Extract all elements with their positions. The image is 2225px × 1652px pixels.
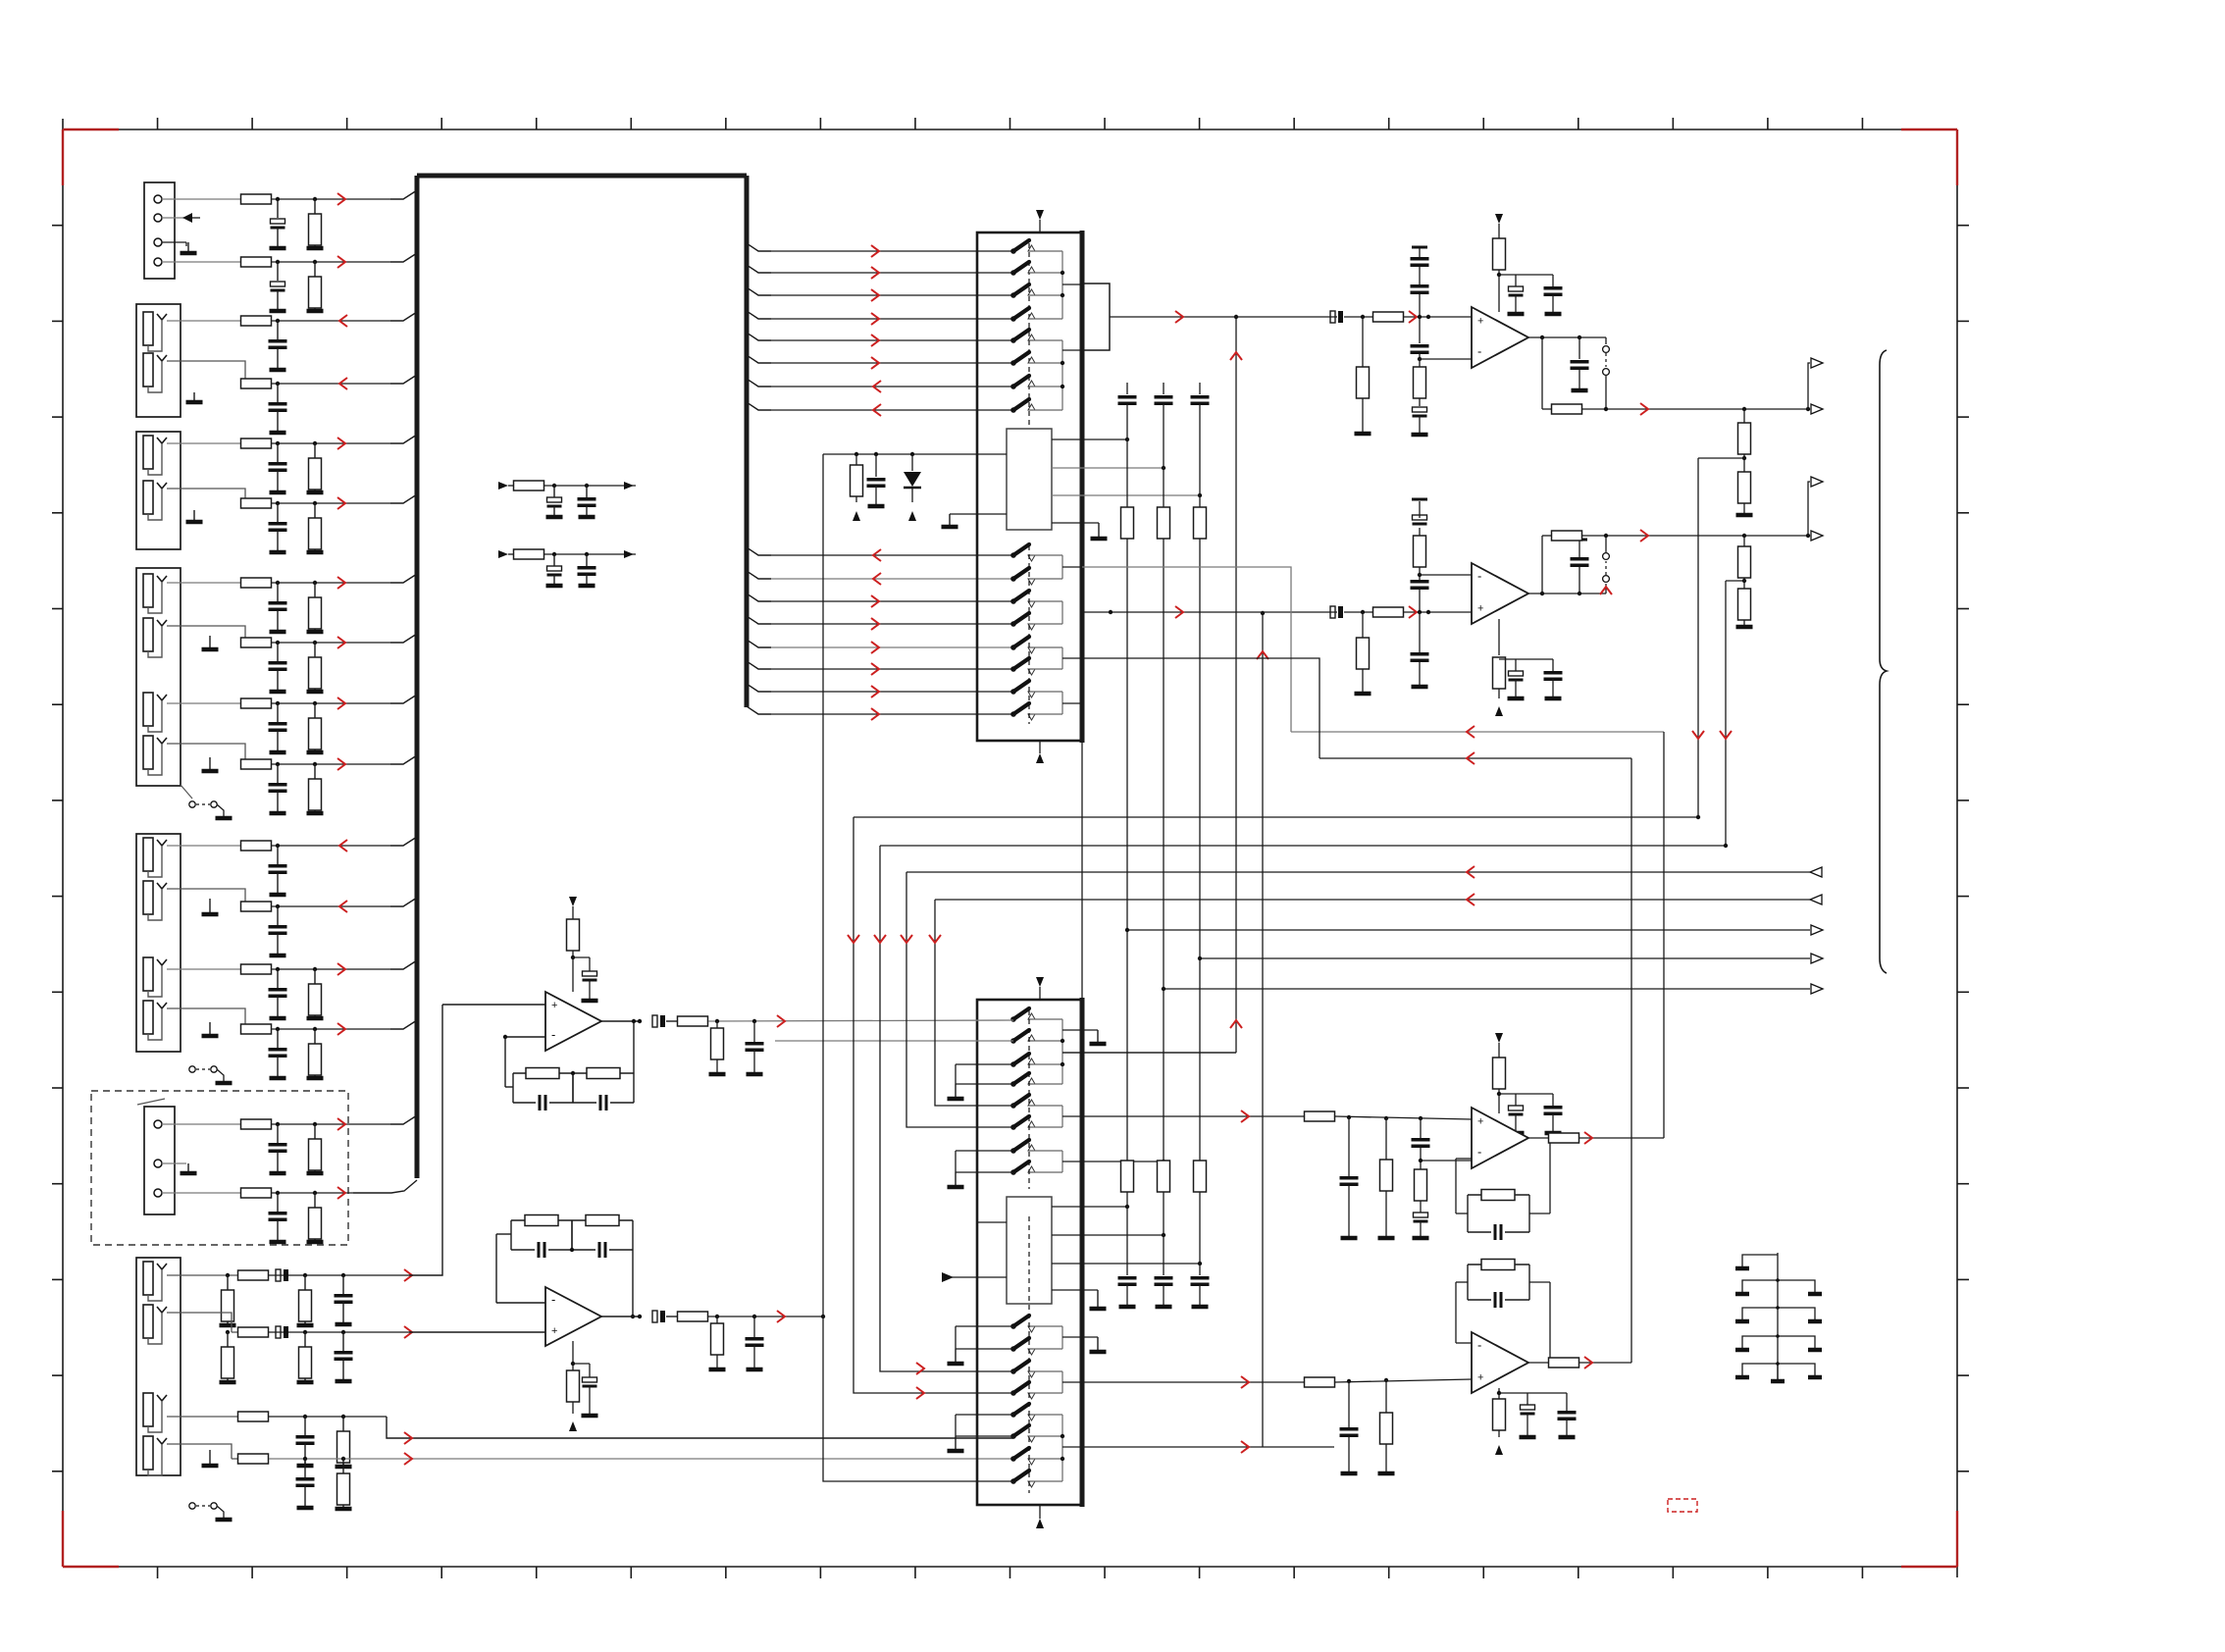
channel A output divider (1736, 409, 1753, 515)
reference network row 2 (498, 549, 636, 586)
input channel row 2A (167, 312, 417, 370)
U2 switches bank B (1010, 544, 1035, 724)
switch matrix U2 outline (977, 231, 1082, 743)
jack group J5 box (136, 834, 181, 1052)
channel B input caps (1411, 573, 1429, 687)
U2 bank B merge pair 4 (1033, 692, 1082, 714)
op-amp U6B decoupling caps (1499, 1393, 1577, 1437)
channel B inverting shunt (1412, 499, 1427, 575)
wire column x1287 (1257, 611, 1268, 1447)
op-amp U6B output (1528, 1357, 1631, 1368)
op-amp U5A (1472, 307, 1528, 368)
bus drop x924 (901, 872, 1013, 1127)
op-amp U6A decoupling caps (1499, 1094, 1563, 1133)
svg-text:-: - (1477, 344, 1481, 359)
jack J5b step wire (167, 889, 245, 906)
channel B output row (1542, 530, 1810, 594)
U2 supply arrow bottom (1036, 741, 1044, 763)
input channel row 7B (220, 1326, 413, 1382)
J4ab ground (202, 636, 219, 649)
svg-text:+: + (1477, 1116, 1483, 1128)
U3 merge output gnd stub (1062, 1030, 1107, 1044)
U3 bank A merge group 1 (1033, 1019, 1236, 1084)
bus row y889 return (906, 866, 1822, 878)
jack J4d (143, 736, 167, 775)
input channel row 5C (167, 960, 417, 1018)
jack J2b step wire (167, 361, 245, 384)
bias net wire (823, 453, 1007, 455)
red corner bottom-right (1901, 1511, 1957, 1567)
channel A output node (1528, 336, 1606, 390)
input channel row 6B (162, 1187, 353, 1242)
channel B inverting input (1420, 574, 1472, 576)
op-amp U4A decoupling cap (573, 957, 598, 1001)
J4cd ground (202, 757, 219, 771)
IC U1 input selector outline (417, 176, 747, 1178)
op-amp U6A input network (1305, 1111, 1473, 1238)
bus row y977 send (1198, 954, 1823, 963)
J5cd ground (202, 1022, 219, 1036)
jack group J3 box (136, 432, 181, 549)
U2 control block (1007, 429, 1052, 530)
bus drop x870 (848, 817, 1013, 1399)
bus row y1008 send (1162, 984, 1823, 994)
U2 input switches bank A (1010, 240, 1035, 413)
U3 bank B merge pair 2 (1033, 1371, 1305, 1393)
U3 bank A merge pair 4 (1033, 1151, 1165, 1172)
op-amp U6B feedback (1456, 1260, 1552, 1366)
op-amp U6B input network (1305, 1377, 1473, 1473)
op-amp U5A decoupling caps (1499, 275, 1563, 314)
input channel row 7D (232, 1453, 1013, 1509)
U2 supply arrow top (1036, 210, 1044, 232)
op-amp U4B feedback network (496, 1215, 635, 1319)
svg-text:-: - (551, 1292, 555, 1307)
jack J5b (143, 881, 167, 920)
input channel row 4A (167, 574, 417, 632)
U2 switch dashed common (1028, 243, 1030, 426)
svg-text:+: + (1477, 603, 1483, 615)
jack J7c (143, 1393, 167, 1432)
channel A inverting shunt (1412, 359, 1428, 435)
wire U3-to-opamp3 column (1062, 315, 1242, 1053)
U3 bank B merge group 3 (1033, 1415, 1334, 1481)
jack J7a (143, 1262, 167, 1301)
input channel row 3B (241, 494, 418, 552)
svg-text:-: - (1477, 569, 1481, 584)
op-amp U4A output network (601, 1015, 1013, 1074)
input channel R/C row 1B (162, 253, 417, 311)
op-amp U4A input wires (442, 1005, 545, 1039)
input channel row 4D (241, 755, 418, 813)
return bus row y773 (1082, 658, 1631, 764)
bus row y862 (880, 844, 1728, 848)
jack J2a (143, 312, 167, 351)
IC U1 lower fan-out bus (747, 547, 1013, 720)
U3 switches bank B (1010, 1216, 1035, 1493)
channel A output jumper (1603, 337, 1610, 409)
return drop x1663 (1630, 758, 1632, 1363)
bias cap C30 (867, 452, 886, 506)
bus drop x897 (874, 846, 1013, 1374)
U2 bank B merge pair 2 (1033, 601, 1062, 624)
jack J5d (143, 1001, 167, 1040)
input channel row 5A (167, 837, 417, 895)
channel B divider tap wire (1720, 581, 1744, 846)
op-amp U4A power resistor (567, 897, 580, 992)
J7cd ground (202, 1450, 219, 1466)
op-amp U5A power resistor (1493, 214, 1506, 312)
channel B output divider (1736, 536, 1753, 627)
J6 pin2 ground (162, 1163, 197, 1173)
jack J4b step wire (167, 626, 245, 643)
svg-text:+: + (1477, 1372, 1483, 1384)
U3 supply arrow bottom (1036, 1505, 1044, 1528)
svg-text:-: - (1477, 1145, 1481, 1160)
reference network row 1 (498, 481, 636, 517)
U3 merge wire to opamp U6B (1241, 1376, 1249, 1388)
input channel row 2B (241, 375, 418, 433)
jack J7b (143, 1305, 167, 1344)
return drop x1696 (1663, 732, 1665, 1138)
U2 control bus pins (1052, 438, 1202, 539)
svg-text:+: + (551, 1325, 557, 1337)
svg-text:+: + (1477, 316, 1483, 328)
U3 supply arrow top (1036, 977, 1044, 1000)
U2/U3 interconnect columns (1118, 383, 1210, 1161)
sheet border frame (63, 119, 1957, 1577)
jack J7d (143, 1436, 167, 1475)
IC U1 fan-out bus to switch matrix U2 (747, 243, 1013, 416)
op-amp U6A output (1528, 1132, 1664, 1144)
U3 bank B merge pair 1 (1033, 1326, 1062, 1349)
jack group J4 box (136, 568, 181, 786)
svg-text:+: + (551, 1000, 557, 1011)
jack J7b step wire (167, 1313, 232, 1332)
jack J4b (143, 618, 167, 657)
input channel row 3A (167, 435, 417, 492)
jack J3b (143, 481, 167, 520)
jack J3b step wire (167, 489, 245, 503)
connector J6 pins (154, 1120, 162, 1197)
op-amp U4B output network (601, 1311, 825, 1369)
jack J2b (143, 353, 167, 392)
channel B output node (1528, 540, 1606, 595)
op-amp U6A (1472, 1108, 1528, 1168)
jack J5a (143, 838, 167, 877)
channel A inverting input (1420, 358, 1472, 360)
channel B output arrows (1808, 477, 1823, 541)
J1 pin2 wire with arrow (162, 213, 200, 223)
input channel row 7A (167, 1005, 442, 1325)
U2 bank A merge group 2 (1033, 340, 1082, 410)
bus row y948 send (1125, 925, 1823, 935)
op-amp U4B input wires (409, 1303, 545, 1332)
op-amp U4A feedback network (505, 1019, 636, 1110)
J2 sleeve ground (186, 392, 203, 402)
U2 control block left pin (942, 514, 1008, 527)
J7 insert-detect switch (189, 1503, 233, 1520)
jack J3a (143, 436, 167, 475)
U3 grounded input pair 1 (948, 1064, 1014, 1099)
connector J6 box (137, 1099, 175, 1214)
op-amp U5B decoupling caps (1499, 659, 1563, 698)
U3 control input arrow (942, 1272, 1007, 1282)
jack J5c (143, 957, 167, 997)
J1 pin3 ground (162, 242, 197, 253)
channel A output row (1542, 337, 1810, 415)
wire bias column (822, 454, 824, 1316)
signal group bracket (1880, 350, 1887, 973)
op-amp U5B (1472, 563, 1528, 624)
bus row y833 (854, 815, 1700, 819)
jack J4a (143, 574, 167, 613)
channel A output arrows (1808, 358, 1823, 414)
U3 merge wire to opamp U6A (1241, 1110, 1249, 1122)
jack group J2 box (136, 304, 181, 417)
J3 sleeve ground (186, 510, 203, 522)
svg-text:-: - (1477, 1338, 1481, 1353)
bus row y917 return (935, 894, 1822, 905)
U3 switches bank A (1010, 1008, 1035, 1189)
op-amp U4B power resistor (567, 1341, 598, 1431)
input channel row 5B (241, 898, 418, 955)
U2 bank B merge pair 1 (1033, 555, 1082, 579)
J4 insert-detect switch (181, 785, 233, 818)
input channel row 5D (241, 1020, 418, 1078)
jack J4c (143, 693, 167, 732)
op-amp U6B (1472, 1332, 1528, 1393)
input channel row 4C (167, 695, 417, 752)
red corner bottom-left (63, 1511, 119, 1567)
connector J1 pins (154, 195, 162, 266)
op-amp U4B (545, 1287, 601, 1346)
jack group J7 box (136, 1258, 181, 1475)
svg-text:-: - (551, 1027, 555, 1042)
input channel R/C row 1A (162, 190, 417, 248)
connector J1 box (144, 182, 175, 279)
wire bias column lower (823, 1316, 1013, 1481)
inter-matrix bus wire (1081, 741, 1083, 1000)
diode D1 (904, 452, 921, 521)
dashed option box (91, 1091, 348, 1245)
U3 grounded input pair 3 (948, 1326, 1014, 1364)
red corner top-left (63, 129, 119, 185)
U3 control block (1007, 1197, 1052, 1304)
channel B output jumper (1600, 536, 1612, 594)
switch matrix U3 outline (977, 998, 1082, 1507)
U3 control left pin (977, 1221, 1007, 1223)
U3 grounded input pair 2 (948, 1151, 1014, 1187)
op-amp U6A feedback (1419, 1136, 1552, 1240)
channel A divider tap wire (1692, 458, 1744, 817)
bias resistor R30 (851, 452, 863, 521)
op-amp U5B power resistor (1493, 619, 1506, 716)
U2 bank B merge pair 3 (1033, 647, 1082, 669)
red revision marker (1668, 1499, 1697, 1512)
input channel row 4B (241, 634, 418, 692)
frame tick marks (52, 118, 1969, 1578)
channel A shunt resistor (1355, 315, 1371, 434)
wire row 1061 into U3 (775, 1040, 1013, 1042)
jack J4d step wire (167, 744, 245, 764)
U3 termination columns (1118, 1161, 1210, 1307)
U2 output box (1082, 284, 1110, 350)
ground tree (1735, 1253, 1822, 1381)
row 6B wire into IC bottom (353, 1180, 417, 1193)
J5 insert-detect switch (189, 1066, 233, 1083)
return bus row y746 (1082, 567, 1664, 738)
channel B shunt resistor (1355, 610, 1371, 694)
U3 bank A merge pair 3 (1033, 1106, 1305, 1127)
channel A input wire (1110, 311, 1472, 323)
bus drop x953 (929, 900, 1013, 1106)
U3 merge output gnd stub 2 (1062, 1337, 1107, 1352)
red corner top-right (1901, 129, 1957, 185)
channel B input wire (1082, 606, 1472, 618)
input channel row 6A (162, 1115, 417, 1173)
U2 bank A merge group 1 (1033, 251, 1082, 319)
op-amp U4A (545, 992, 601, 1051)
op-amp U6B power resistor (1493, 1388, 1506, 1455)
U3 control bus pins (1052, 1205, 1202, 1309)
jack J5d step wire (167, 1008, 245, 1029)
channel A input caps (1411, 247, 1429, 361)
jack J7d step wire (167, 1444, 232, 1459)
input channel row 7C (167, 1412, 1013, 1467)
J5ab ground (202, 899, 219, 914)
op-amp U6A power resistor (1493, 1033, 1506, 1113)
U3 grounded input pair 4 (948, 1415, 1014, 1451)
